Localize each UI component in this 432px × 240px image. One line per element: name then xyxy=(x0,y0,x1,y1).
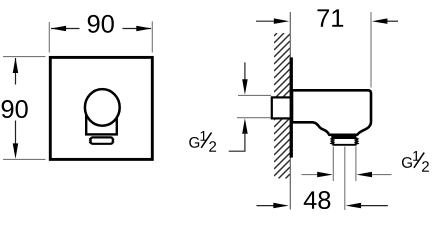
outlet body side view xyxy=(292,90,371,135)
dimension 90 top: extension lines xyxy=(48,22,50,53)
G1/2 outlet: arrows xyxy=(302,174,319,176)
wall plate edge-on xyxy=(290,57,293,157)
front plate square 90x90 xyxy=(50,57,152,159)
dimension 90 top: dim line + arrows xyxy=(51,28,80,30)
dimension 71: text xyxy=(317,9,343,26)
knob circle xyxy=(85,89,120,126)
holder bracket xyxy=(86,108,117,134)
G1/2 outlet: extension lines xyxy=(332,147,334,182)
dimension 48: arrows xyxy=(257,205,276,207)
dimension 90 left: extension lines xyxy=(3,56,46,58)
dimension 90 top: text xyxy=(88,15,114,33)
dimension 48: text xyxy=(304,191,331,209)
outlet hose thread nipple xyxy=(331,135,356,138)
wall face line xyxy=(289,12,291,210)
dimension 71: extension line right xyxy=(370,12,372,88)
dimension 90 left: dim line + arrows xyxy=(15,58,17,85)
hose nut with knurling xyxy=(89,137,114,143)
dimension 90 left: text xyxy=(2,100,28,118)
G1/2 inlet: extension lines xyxy=(238,94,271,96)
wall hatch xyxy=(274,33,290,179)
dimension 48: center extension line xyxy=(344,147,346,211)
G1/2 inlet: label xyxy=(189,131,216,152)
G1/2 inlet: leader xyxy=(229,150,246,152)
G1/2 outlet: label xyxy=(402,151,429,172)
dimension 71: arrows xyxy=(256,20,276,22)
inlet union G1/2 behind wall xyxy=(272,97,292,118)
G1/2 inlet: arrows xyxy=(244,62,246,82)
